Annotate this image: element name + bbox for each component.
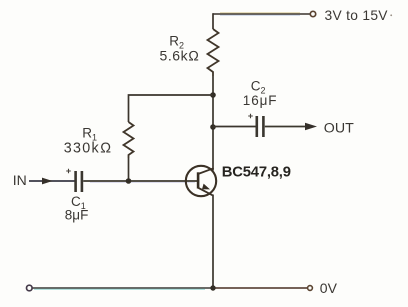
terminal: ground left open circle <box>27 285 33 291</box>
wire: ground rail left segment <box>32 287 213 289</box>
speck after 15V label <box>390 14 392 16</box>
wire: base wire scan fringe <box>90 181 195 183</box>
resistor R1 zigzag <box>124 122 134 158</box>
arrow: emitter NPN <box>202 184 210 190</box>
svg-text:3V to 15V: 3V to 15V <box>325 8 389 23</box>
label: C1 polarity plus <box>66 169 71 174</box>
wire: input lead <box>29 180 75 182</box>
wire: collector rail mid segment <box>212 76 214 171</box>
wire: collector to C2 <box>213 126 256 128</box>
arrow: output direction <box>305 123 317 130</box>
wire: R1 bottom lead <box>128 158 130 181</box>
svg-text:0V: 0V <box>320 280 338 296</box>
wire: R1 top horizontal branch <box>129 95 214 122</box>
wire: ground rail right segment <box>213 287 307 289</box>
label: C2 polarity plus <box>248 114 253 119</box>
terminal: supply open circle <box>310 11 315 16</box>
capacitor C2 plates <box>256 116 259 137</box>
svg-text:OUT: OUT <box>324 120 354 136</box>
node: junction to R1 branch <box>210 92 216 98</box>
transistor Q1 circle <box>186 166 216 196</box>
wire: top supply rail horizontal <box>213 13 310 15</box>
wire: base wire from C1 to transistor <box>83 180 197 182</box>
resistor R2 zigzag <box>208 29 219 76</box>
node: junction base with R1 <box>126 178 132 184</box>
svg-text:16μF: 16μF <box>243 93 278 108</box>
wire: emitter down to ground rail <box>212 195 214 289</box>
capacitor C1 plates <box>74 171 77 192</box>
wire: ground rail cyan scan fringe <box>34 288 205 290</box>
wire: C2 to output arrow <box>265 126 306 128</box>
node: junction to C2 branch <box>210 124 216 130</box>
transistor Q1 base bar <box>197 172 200 188</box>
wire: top rail scan fringes <box>220 12 300 14</box>
wire: collector rail top segment <box>212 13 214 29</box>
svg-text:330kΩ: 330kΩ <box>64 141 112 157</box>
svg-text:IN: IN <box>13 172 27 188</box>
node: emitter ground junction <box>210 285 215 290</box>
arrow: input signal direction <box>42 178 53 185</box>
svg-text:BC547,8,9: BC547,8,9 <box>222 165 291 181</box>
transistor Q1 emitter stroke <box>198 188 213 196</box>
svg-text:5.6kΩ: 5.6kΩ <box>160 47 200 63</box>
svg-text:8μF: 8μF <box>65 208 89 223</box>
transistor Q1 collector stroke <box>198 168 214 174</box>
terminal: ground right open circle <box>308 286 313 291</box>
